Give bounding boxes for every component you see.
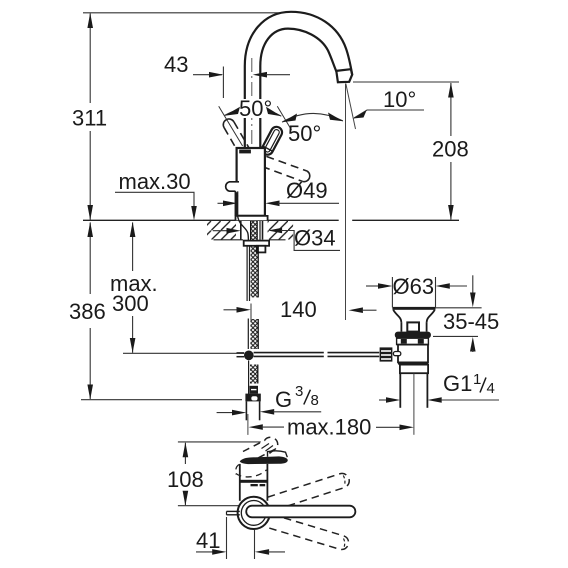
108 bottom extension line bbox=[178, 505, 240, 507]
dimension 386 vertical line bbox=[89, 223, 91, 400]
faucet body bbox=[237, 148, 265, 216]
svg-text:G1: G1 bbox=[443, 371, 472, 396]
dia34 right arrow + bent leader bbox=[268, 228, 282, 234]
deck bottom line bbox=[214, 239, 244, 241]
max.30 underline and leader bbox=[115, 192, 194, 207]
svg-text:Ø49: Ø49 bbox=[286, 178, 328, 203]
connection tube bbox=[245, 401, 247, 420]
hose segment C rod line bbox=[248, 361, 250, 395]
knurled knob bbox=[380, 347, 393, 361]
deck hatching left bbox=[207, 221, 236, 240]
shank hole walls bbox=[240, 221, 242, 240]
50deg arc 2 bbox=[282, 113, 343, 122]
43 dim line + left arrow bbox=[193, 74, 222, 76]
plan body sides bbox=[239, 464, 241, 501]
35-45 top arrow bbox=[472, 275, 474, 294]
label 50deg first backing bbox=[239, 99, 276, 118]
svg-text:Ø63: Ø63 bbox=[393, 274, 435, 299]
dimension 311 vertical line bbox=[89, 14, 91, 220]
208 top arrow bbox=[448, 83, 454, 98]
arc2 left arrowhead bbox=[282, 114, 297, 123]
svg-text:8: 8 bbox=[311, 392, 319, 409]
seat ring bbox=[395, 332, 431, 339]
pull rod tab plan bbox=[227, 510, 240, 512]
svg-text:208: 208 bbox=[432, 137, 469, 162]
hose segment B rod line bbox=[247, 319, 249, 350]
lower flange bbox=[400, 365, 428, 374]
svg-text:max.180: max.180 bbox=[287, 415, 371, 440]
spout inner curve bbox=[260, 29, 336, 148]
rod stub left of dot bbox=[237, 352, 245, 354]
dia63 right arrow bbox=[436, 283, 450, 289]
arrow down 386 bottom bbox=[87, 385, 93, 400]
dia63 left arrow bbox=[366, 285, 380, 287]
drain taper left bbox=[393, 310, 401, 323]
208 top extension bbox=[353, 81, 459, 83]
svg-text:300: 300 bbox=[112, 291, 149, 316]
horizontal pop-up rod to drain bbox=[254, 352, 324, 354]
slotted band bbox=[397, 338, 429, 344]
lower lever end marks bbox=[344, 539, 345, 548]
41 extension lines bbox=[226, 517, 228, 559]
svg-text:50°: 50° bbox=[288, 121, 321, 146]
svg-text:311: 311 bbox=[72, 106, 107, 131]
dashed lever right position bbox=[250, 152, 310, 182]
arrow up 386 top bbox=[87, 222, 93, 237]
10 degree tilted line bbox=[346, 84, 356, 130]
208 dim line bbox=[450, 83, 452, 136]
140 left arrow bbox=[224, 309, 239, 311]
aerator hatch dashes bbox=[262, 444, 277, 454]
pull rod bbox=[234, 191, 236, 215]
G3/8 left arrow bbox=[217, 412, 234, 414]
top extension line bbox=[83, 12, 282, 14]
140 stub extension bbox=[250, 304, 252, 321]
svg-text:4: 4 bbox=[487, 380, 495, 397]
drain bottom band bbox=[398, 362, 428, 365]
deck hatching right bbox=[268, 221, 294, 240]
arrow up max300 top bbox=[130, 222, 136, 237]
tailpipe bbox=[399, 373, 401, 408]
lower centerline stub bbox=[247, 414, 249, 435]
lever axis extension left bbox=[219, 106, 243, 146]
10deg leader bbox=[354, 110, 424, 118]
35-45 extension lines bbox=[435, 307, 482, 309]
pull rod hook bbox=[226, 182, 239, 197]
arrow down max.30 bbox=[191, 206, 197, 220]
drain mid body bbox=[398, 345, 428, 363]
svg-text:43: 43 bbox=[164, 52, 188, 77]
svg-text:140: 140 bbox=[280, 297, 317, 322]
max180 right arrow bbox=[376, 426, 400, 428]
mounting nut bbox=[244, 241, 269, 246]
svg-text:G: G bbox=[275, 387, 292, 412]
arc1 right arrowhead bbox=[266, 107, 282, 116]
arrow down 311 bottom bbox=[87, 205, 93, 220]
dashed lever left position bbox=[223, 119, 259, 171]
spout outlet cap bbox=[336, 69, 352, 82]
G3/8 fitting nut bbox=[245, 394, 260, 402]
43 left extension line bbox=[222, 67, 224, 99]
G1 1/4 left arrow bbox=[379, 399, 392, 401]
dashed spout plan bbox=[243, 437, 278, 459]
dimension max.300 vertical line bbox=[132, 223, 134, 353]
max180 left arrow bbox=[249, 424, 263, 430]
junction dot bbox=[244, 351, 254, 361]
pull rod curve in hole bbox=[238, 216, 249, 243]
base plate bbox=[236, 216, 268, 220]
43 right arrow bbox=[253, 72, 267, 78]
dia63 extension lines bbox=[391, 277, 393, 307]
208 bottom arrow bbox=[448, 205, 454, 220]
arrow down max300 bottom bbox=[130, 338, 136, 353]
arc1 left arrowhead bbox=[225, 107, 241, 116]
41 left arrow bbox=[196, 551, 213, 553]
drain centerline bbox=[413, 374, 415, 435]
svg-text:1: 1 bbox=[473, 371, 481, 388]
screw detail bbox=[393, 352, 400, 356]
svg-text:386: 386 bbox=[69, 299, 106, 324]
plan body black band bbox=[240, 480, 268, 483]
drain neck sides bbox=[400, 323, 402, 332]
upper lever end marks bbox=[343, 476, 345, 486]
solid lever bbox=[260, 125, 284, 157]
108 bottom arrow bbox=[183, 491, 189, 506]
arc2 right arrowhead bbox=[328, 113, 343, 122]
G1 1/4 right arrow + underline bbox=[427, 397, 441, 403]
plan body dashes bbox=[251, 484, 258, 486]
drain flange top bbox=[392, 307, 435, 310]
deck line bbox=[83, 219, 339, 221]
lever bar plan (black) bbox=[240, 456, 288, 464]
drain taper right bbox=[427, 310, 435, 323]
G3/8 right arrow + underline bbox=[260, 409, 274, 415]
max300 bottom extension line bbox=[123, 352, 244, 354]
dimension 108 line bbox=[184, 443, 186, 464]
dashed lever plan lower bbox=[268, 514, 349, 549]
hose segment C braid bbox=[250, 365, 258, 384]
spout outer curve bbox=[245, 12, 352, 148]
slot right bbox=[418, 339, 424, 344]
water stream vertical line bbox=[345, 84, 347, 321]
body top dark bar bbox=[239, 150, 251, 154]
tube right edge in hole bbox=[259, 221, 261, 241]
plug knob bbox=[407, 322, 419, 331]
svg-text:Ø34: Ø34 bbox=[294, 226, 336, 251]
lever axis extension right bbox=[277, 106, 291, 130]
svg-text:10°: 10° bbox=[383, 87, 416, 112]
svg-text:35-45: 35-45 bbox=[443, 309, 499, 334]
140 right arrow bbox=[349, 307, 363, 313]
lever bar plan solid bbox=[246, 506, 355, 518]
faucet centerline bbox=[251, 58, 253, 220]
hose segment A rod lines bbox=[246, 246, 248, 301]
dia49 left arrow bbox=[218, 202, 231, 204]
plan top-left dashed arc bbox=[236, 465, 239, 475]
plan body dashed shoulder bbox=[236, 470, 267, 477]
hose in hole bbox=[251, 221, 258, 241]
slot left bbox=[401, 339, 407, 344]
svg-text:108: 108 bbox=[167, 467, 204, 492]
108 top arrow bbox=[183, 442, 189, 457]
hose segment A braid bbox=[251, 246, 259, 298]
41 right arrow bbox=[255, 549, 269, 555]
svg-text:3: 3 bbox=[295, 383, 303, 400]
10deg arrowhead bbox=[353, 111, 367, 119]
lever bar top detail bbox=[268, 451, 288, 457]
svg-text:41: 41 bbox=[196, 528, 220, 553]
dia49 right arrow + underline bbox=[265, 201, 279, 207]
108 top extension line bbox=[178, 441, 261, 443]
hose end collar bbox=[249, 386, 258, 394]
50deg arc 1 bbox=[225, 108, 282, 117]
pivot circle inner bbox=[241, 501, 266, 526]
386 bottom reference line bbox=[81, 399, 242, 401]
arrow up 311 top bbox=[87, 13, 93, 28]
hose segment B braid bbox=[250, 319, 258, 349]
dashed lever plan upper bbox=[268, 473, 349, 510]
pivot circle outer bbox=[238, 497, 270, 529]
35-45 bottom arrow bbox=[470, 337, 476, 352]
dia34 left arrow bbox=[213, 230, 233, 232]
svg-text:max.30: max.30 bbox=[119, 169, 191, 194]
